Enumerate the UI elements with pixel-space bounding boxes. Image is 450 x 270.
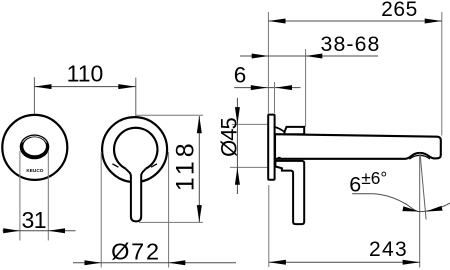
neck curve from plate <box>274 127 285 132</box>
svg-text:KEUCO: KEUCO <box>26 168 43 173</box>
svg-text:31: 31 <box>22 207 47 233</box>
angle ray slanted <box>420 153 426 220</box>
dim 265 line <box>268 20 441 22</box>
dim 118 arrow bottom <box>197 205 202 222</box>
dim 31 extension line left <box>19 151 21 241</box>
dim O45 top extension <box>232 123 267 125</box>
detent tick left <box>112 164 118 167</box>
dim 265 extension left <box>267 12 269 114</box>
spout ring outer (left figure) <box>20 134 50 159</box>
detent tick right <box>151 164 157 167</box>
spout body side view <box>275 134 441 159</box>
svg-text:118: 118 <box>172 139 200 191</box>
wall plate side view <box>268 115 274 180</box>
dim 243 arrow left <box>269 260 286 265</box>
dim 38-68 arrow right <box>306 54 323 59</box>
centerline middle figure <box>135 78 137 133</box>
spout ring inner opening <box>23 137 46 155</box>
dim 243 extension left <box>268 185 270 267</box>
svg-text:6: 6 <box>234 62 247 87</box>
dim 31 line <box>3 230 76 232</box>
dim O72 extension right <box>168 152 170 268</box>
dim 31 arrow left <box>3 228 20 233</box>
dim 31 arrow right <box>48 228 65 233</box>
svg-text:110: 110 <box>67 61 104 87</box>
dim 110 arrow left <box>34 84 51 89</box>
dim O45 arrow top <box>235 107 240 124</box>
dim 243 line <box>269 261 420 263</box>
outer circle left escutcheon <box>2 115 67 180</box>
angle ray vertical <box>419 153 421 268</box>
dim 265 arrow right <box>425 19 442 24</box>
spout outlet inner lip <box>409 155 430 159</box>
centerline left figure <box>33 77 35 133</box>
dim 31 extension line right <box>47 151 49 241</box>
dim 6 arrow right <box>275 85 292 90</box>
dim 38-68 arrow left <box>252 54 269 59</box>
dim O72 arrow left <box>85 260 102 265</box>
lever side view <box>275 161 304 224</box>
angle leader and arc <box>352 194 450 212</box>
dim 118 top extension <box>136 114 203 116</box>
dim O72 extension left <box>100 152 102 268</box>
dim 110 line <box>34 86 135 88</box>
svg-text:Ø72: Ø72 <box>111 239 161 265</box>
dim 265 arrow left <box>268 19 285 24</box>
outer circle middle escutcheon <box>102 117 167 182</box>
dim O45 line <box>236 98 238 194</box>
svg-text:265: 265 <box>381 0 418 21</box>
svg-text:243: 243 <box>369 238 408 261</box>
dim 265 extension right <box>441 12 443 136</box>
dim O45 bottom extension <box>230 166 267 168</box>
dim O45 arrow bottom <box>235 168 240 185</box>
angle arrow right <box>426 206 443 212</box>
dim 243 arrow right <box>403 260 420 265</box>
dim 6 line <box>234 87 300 89</box>
angle arrow left <box>402 206 419 211</box>
dim 118 arrow top <box>197 116 202 133</box>
lever ring arc <box>114 128 157 169</box>
svg-text:38-68: 38-68 <box>321 32 381 56</box>
dim 110 arrow right <box>118 84 136 89</box>
svg-text:Ø45: Ø45 <box>216 118 241 157</box>
pin detail <box>278 157 281 160</box>
dim 38-68 line <box>240 55 378 57</box>
dim 118 bottom extension <box>139 221 203 223</box>
dim 6 extension plate right <box>274 82 276 113</box>
dim 38-68 extension right <box>305 49 307 127</box>
dim O72 arrow right <box>169 260 186 265</box>
cartridge housing trapezoid <box>285 127 305 134</box>
dim O72 line <box>73 262 236 264</box>
lever stem <box>126 169 146 222</box>
dim 118 line <box>198 116 200 222</box>
dim 6 arrow left <box>251 85 268 90</box>
